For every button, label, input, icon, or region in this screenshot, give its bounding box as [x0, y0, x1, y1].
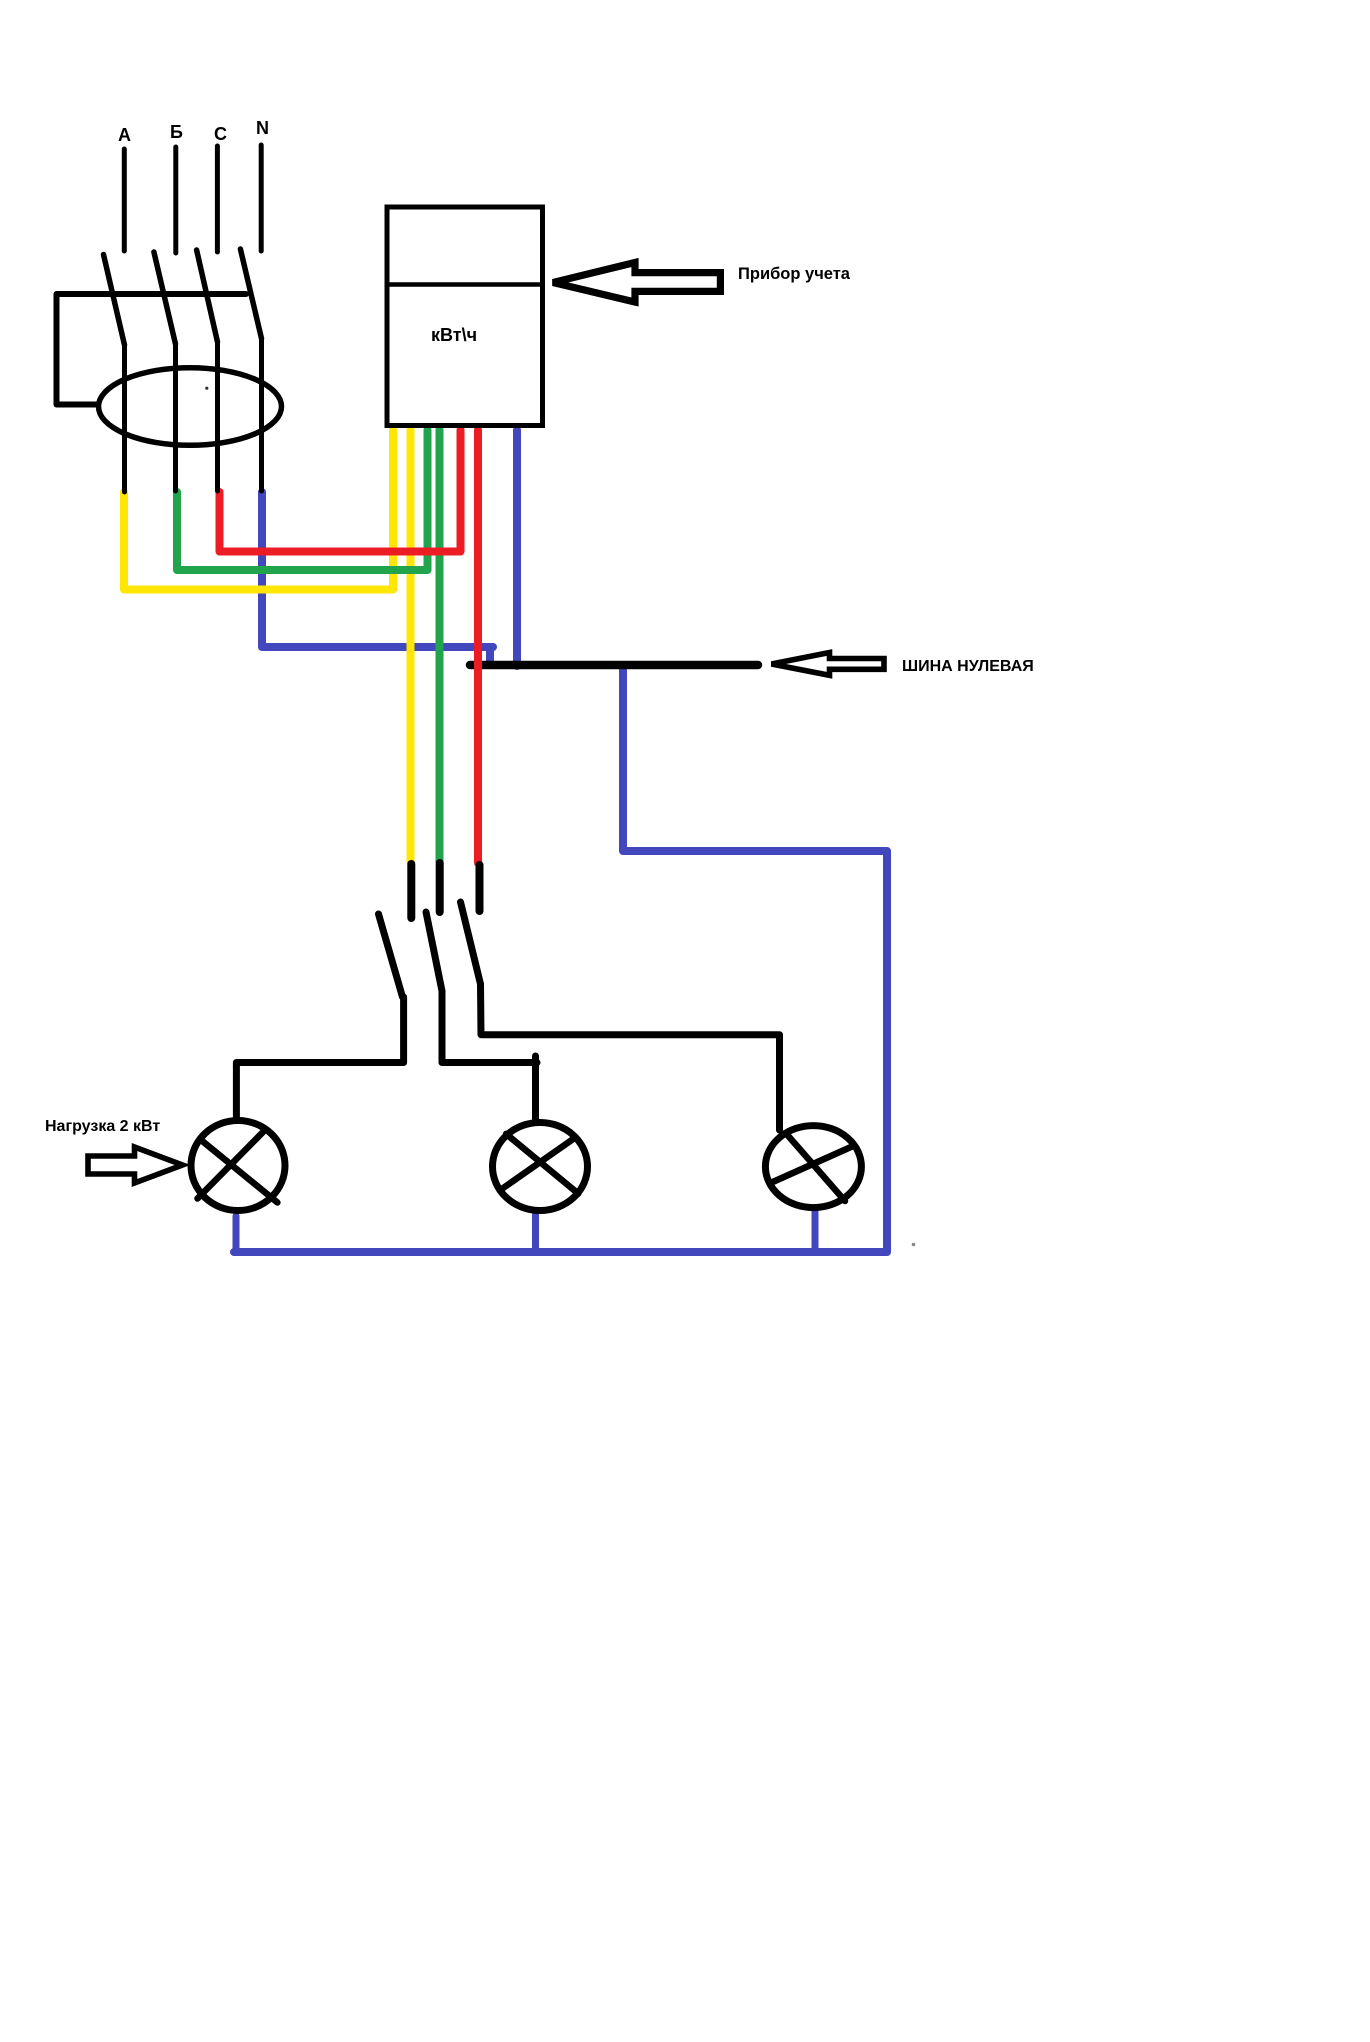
- annotation arrow to meter: [553, 263, 720, 303]
- lamp EL1 circle: [191, 1121, 285, 1211]
- wire green phase B breaker to meter terminal 3: [177, 430, 428, 570]
- wire yellow phase A breaker to meter terminal 1: [124, 430, 393, 590]
- wire blue riser lamp2 to bottom bus: [532, 1212, 539, 1252]
- svg-text:Прибор учета: Прибор учета: [738, 265, 851, 283]
- breaker QF1 pole N blade: [240, 249, 261, 339]
- wire red phase C meter terminal 6 down to switch 3: [474, 430, 482, 863]
- switch SA2 blade: [426, 912, 442, 991]
- wire input line A: [122, 149, 127, 251]
- wire input line N: [259, 145, 264, 251]
- wire breaker output B: [173, 344, 178, 491]
- wire yellow phase A meter terminal 2 down to switch 1: [407, 430, 415, 862]
- wire green phase B meter terminal 4 down to switch 2: [436, 430, 444, 861]
- breaker QF1 pole A blade: [104, 255, 125, 346]
- wire neutral blue from meter terminal to neutral bus: [513, 430, 521, 666]
- wire breaker output C: [215, 342, 220, 491]
- svg-text:Б: Б: [170, 122, 183, 142]
- noise dot right of bottom bus: [912, 1243, 916, 1247]
- switch SA2 input stub: [436, 863, 444, 912]
- svg-text:N: N: [256, 118, 269, 138]
- neutral bus black bar: [470, 661, 758, 670]
- wire input line B: [173, 147, 178, 253]
- svg-text:ШИНА НУЛЕВАЯ: ШИНА НУЛЕВАЯ: [902, 658, 1034, 675]
- noise dot inside ellipse: [205, 387, 208, 390]
- wire breaker output A: [122, 345, 127, 492]
- annotation arrow to load lamp1: [88, 1147, 183, 1183]
- breaker QF1 pole B blade: [154, 252, 176, 344]
- lamp EL2 cross: [500, 1134, 579, 1194]
- wire blue riser lamp3 to bottom bus: [812, 1210, 819, 1252]
- wire blue riser lamp1 to bottom bus: [233, 1216, 240, 1252]
- wire switch SA2 to lamp EL2 horizontal: [442, 991, 537, 1063]
- wire red phase C breaker to meter terminal 5: [220, 430, 461, 552]
- breaker QF1 pole C blade: [197, 250, 218, 342]
- lamp EL2 circle: [493, 1123, 588, 1211]
- switch SA3 blade: [461, 902, 481, 984]
- wire breaker output N: [259, 339, 264, 492]
- lamp EL1 cross: [198, 1131, 278, 1203]
- meter U1 divider line: [387, 282, 543, 287]
- svg-text:кВт\ч: кВт\ч: [431, 325, 477, 345]
- lamp EL3 circle: [765, 1126, 861, 1208]
- lamp EL3 cross: [771, 1135, 855, 1202]
- wire neutral blue main drop from bus to bottom lamp bus: [234, 666, 887, 1252]
- RCD differential transformer ellipse: [99, 368, 282, 446]
- wire input line C: [215, 146, 220, 252]
- switch SA3 input stub: [476, 865, 484, 911]
- annotation arrow to neutral bus: [772, 653, 885, 676]
- svg-text:А: А: [118, 125, 131, 145]
- wire switch SA3 to lamp EL3: [481, 984, 780, 1130]
- wire neutral blue from breaker N pole to neutral bus: [262, 492, 493, 665]
- meter U1 kWh box: [387, 207, 543, 426]
- switch SA1 input stub: [407, 864, 415, 918]
- svg-text:Нагрузка 2 кВт: Нагрузка 2 кВт: [45, 1118, 160, 1135]
- wire switch SA1 to lamp EL1: [236, 997, 403, 1118]
- switch SA1 blade: [379, 914, 403, 997]
- breaker QF1 trip bar and release housing box: [57, 294, 247, 405]
- wire lamp EL2 feed vertical: [532, 1056, 539, 1122]
- svg-text:С: С: [214, 124, 227, 144]
